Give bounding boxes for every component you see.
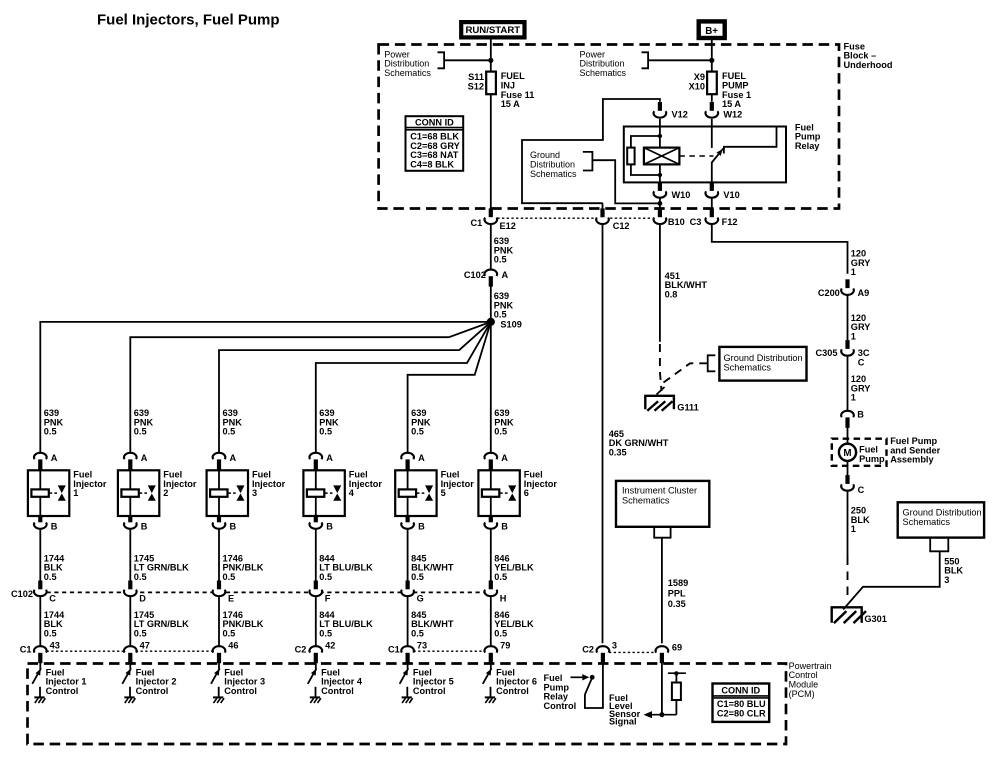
label 250 BLK 1 [851, 506, 870, 535]
label 639 PNK 0.5 injector 5 feed [411, 408, 431, 437]
svg-text:Distribution: Distribution [530, 159, 575, 169]
wire B+ down to Fuse 1 [711, 37, 713, 72]
fuel injector 5 driver in PCM [400, 662, 454, 704]
relay switch fixed contact [724, 127, 777, 153]
svg-text:C102: C102 [464, 270, 486, 280]
svg-text:C102: C102 [11, 589, 33, 599]
svg-text:Relay: Relay [795, 141, 820, 151]
fuel injector 1 driver in PCM [32, 662, 86, 704]
wire E12 to C102 [490, 225, 492, 270]
label 639 PNK 0.5 injector 1 feed [44, 408, 64, 437]
svg-text:S12: S12 [468, 82, 484, 92]
wire injector 1 to C102 [39, 530, 41, 582]
wire C102 G to PCM pin 73 [407, 597, 409, 647]
svg-text:A9: A9 [858, 288, 870, 298]
svg-text:Control: Control [321, 686, 354, 696]
relay coil resistor loop [627, 134, 662, 177]
connector PCM pin 73 [388, 641, 427, 664]
svg-text:0.5: 0.5 [223, 427, 236, 437]
connector B injector 2 [124, 516, 148, 532]
svg-text:Fuel Injectors, Fuel Pump: Fuel Injectors, Fuel Pump [97, 11, 280, 28]
svg-text:0.5: 0.5 [44, 628, 57, 638]
svg-text:0.5: 0.5 [319, 572, 332, 582]
wire C305 to B [847, 357, 849, 412]
svg-text:C: C [858, 485, 865, 495]
svg-text:Schematics: Schematics [530, 169, 577, 179]
wire fanout S109 to injector 4 [316, 322, 491, 453]
svg-text:C12: C12 [613, 221, 630, 231]
wire C12 down to pin 3 [602, 225, 604, 644]
svg-text:M: M [843, 448, 851, 459]
connector C fuel pump [841, 475, 864, 495]
relay coil [644, 148, 680, 165]
fuel pump motor M [839, 444, 885, 464]
svg-text:Control: Control [544, 701, 577, 711]
connector W12 [706, 102, 743, 120]
fuel injector 2 [118, 470, 197, 516]
wire B10 down [659, 225, 661, 342]
wire W10 to B10 [659, 199, 661, 210]
svg-text:Control: Control [496, 686, 529, 696]
title [97, 11, 280, 28]
svg-text:C: C [858, 358, 865, 368]
connector A injector 1 [34, 453, 58, 470]
node X9 X10 junction [709, 58, 714, 63]
wire fanout S109 to injector 2 [130, 322, 491, 453]
svg-text:B: B [501, 522, 508, 532]
dashed wire to G111 [657, 344, 708, 395]
svg-text:Signal: Signal [609, 717, 637, 727]
connector C102 pin A inline [464, 270, 509, 287]
label 639 PNK 0.5 injector 3 feed [223, 408, 243, 437]
svg-text:1: 1 [73, 488, 78, 498]
RUN/START ignition feed box [461, 22, 524, 37]
svg-text:CONN ID: CONN ID [415, 117, 454, 127]
svg-text:15 A: 15 A [722, 99, 741, 109]
svg-text:G301: G301 [864, 614, 886, 624]
label 639 PNK 0.5 injector 4 feed [319, 408, 339, 437]
svg-text:Schematics: Schematics [724, 363, 772, 373]
svg-text:C2=80 CLR: C2=80 CLR [717, 708, 766, 718]
svg-text:C2: C2 [582, 645, 594, 655]
svg-text:C4=8 BLK: C4=8 BLK [410, 159, 454, 169]
relay switch blade [712, 149, 723, 184]
label 846 wire upper [494, 553, 534, 582]
relay coil-switch dashed link [679, 155, 713, 157]
wire Fuse 11 to E12 [490, 94, 492, 209]
wire C102 to S109 [490, 285, 492, 322]
wire fanout S109 to injector 3 [219, 322, 491, 453]
svg-text:1: 1 [851, 332, 856, 342]
svg-text:CONN ID: CONN ID [721, 686, 760, 696]
svg-text:B: B [230, 522, 237, 532]
label 844 wire upper [319, 553, 373, 582]
wire fanout S109 to injector 1 [40, 322, 491, 453]
svg-text:69: 69 [672, 643, 682, 653]
svg-text:A: A [418, 453, 425, 463]
wire 550 BLK 3 to G301 [843, 551, 963, 609]
label 639 PNK 0.5 injector 6 feed [494, 408, 514, 437]
svg-text:1: 1 [851, 267, 856, 277]
svg-text:0.5: 0.5 [494, 310, 507, 320]
connector C102 pin F [310, 581, 331, 604]
connector PCM pin 47 [124, 641, 150, 664]
dashed wire to G301 [847, 557, 849, 602]
svg-text:46: 46 [228, 641, 238, 651]
svg-text:3: 3 [612, 641, 617, 651]
svg-text:G: G [417, 594, 424, 604]
wire injector 6 to C102 [490, 530, 492, 582]
instrument cluster schematics box [616, 481, 709, 538]
ground G111 [645, 396, 698, 413]
label 639 PNK 0.5 [494, 236, 514, 265]
svg-text:F12: F12 [722, 217, 738, 227]
wire V12 into relay [659, 119, 661, 149]
svg-text:5: 5 [441, 488, 446, 498]
svg-text:A: A [141, 453, 148, 463]
connector C12 [596, 208, 629, 231]
wire C102 C to PCM pin 43 [39, 597, 41, 647]
svg-text:4: 4 [349, 488, 355, 498]
connector C2 pin 3 [582, 641, 617, 664]
fuel pump relay control driver in PCM [544, 662, 603, 711]
wire V10 to F12 [711, 199, 713, 210]
node S11 S12 junction [488, 58, 493, 63]
svg-text:V12: V12 [672, 110, 688, 120]
svg-text:C1: C1 [470, 218, 482, 228]
svg-text:0.5: 0.5 [134, 427, 147, 437]
svg-text:PPL: PPL [668, 588, 686, 598]
power distribution reference left [384, 49, 491, 78]
svg-text:Underhood: Underhood [844, 60, 893, 70]
svg-text:G111: G111 [677, 403, 698, 413]
label 1746 wire lower [223, 610, 264, 638]
svg-text:Schematics: Schematics [903, 517, 951, 527]
svg-text:1589: 1589 [668, 578, 688, 588]
connector C102 pin H [484, 581, 506, 604]
label 1745 wire upper [134, 553, 189, 582]
ground distribution schematics box right [708, 347, 807, 381]
connector pin 69 [656, 643, 683, 664]
svg-text:A: A [326, 453, 333, 463]
wire W12 into relay switch contact [711, 119, 713, 148]
svg-text:Schematics: Schematics [580, 68, 627, 78]
svg-text:C: C [49, 594, 56, 604]
svg-text:A: A [502, 270, 509, 280]
wire injector 3 to C102 [218, 530, 220, 582]
svg-text:47: 47 [140, 641, 150, 651]
wire C102 D to PCM pin 47 [129, 597, 131, 647]
svg-text:0.5: 0.5 [411, 572, 424, 582]
svg-text:RUN/START: RUN/START [465, 25, 520, 36]
svg-text:Control: Control [413, 686, 446, 696]
connector C200 A9 [818, 279, 869, 298]
ground distribution schematics box bottom right [898, 502, 984, 551]
svg-text:C1: C1 [388, 645, 400, 655]
wire RUN/START down to Fuse 11 [490, 40, 492, 72]
label 639 PNK 0.5 second [494, 291, 514, 320]
svg-text:0.8: 0.8 [665, 289, 678, 299]
svg-text:Schematics: Schematics [622, 495, 670, 505]
svg-text:B: B [418, 522, 425, 532]
wire Fuse 1 to W12 [711, 94, 713, 102]
wire coil to W10 [659, 164, 661, 183]
svg-text:B+: B+ [705, 26, 718, 37]
connector B fuel pump [841, 410, 864, 428]
svg-text:6: 6 [524, 488, 529, 498]
svg-text:0.5: 0.5 [494, 427, 507, 437]
ground reference link to B10 wire [592, 160, 662, 206]
svg-text:X10: X10 [689, 82, 705, 92]
fuel injector 4 driver in PCM [308, 662, 363, 704]
powertrain control module dashed box [28, 661, 832, 744]
svg-text:43: 43 [50, 641, 60, 651]
fuel injector 6 [478, 470, 557, 516]
connector C102 pin C [34, 581, 56, 604]
svg-text:Control: Control [136, 686, 169, 696]
connector C102 pin E [213, 581, 234, 604]
svg-text:E12: E12 [500, 221, 516, 231]
fuel injector 4 [303, 470, 382, 516]
svg-text:B: B [326, 522, 333, 532]
connector A injector 2 [124, 453, 148, 470]
ground distribution schematics reference text [530, 150, 592, 179]
svg-text:D: D [139, 594, 146, 604]
fuel injector 3 driver in PCM [211, 662, 265, 704]
svg-text:3: 3 [944, 575, 949, 585]
connector B injector 5 [401, 516, 425, 532]
svg-text:B: B [857, 410, 864, 420]
label 120 GRY 1 third [851, 374, 871, 403]
svg-text:15 A: 15 A [501, 99, 520, 109]
svg-text:Control: Control [46, 686, 79, 696]
svg-text:C1: C1 [20, 645, 32, 655]
connector W10 [654, 182, 691, 200]
fuel level sensor signal input in PCM [609, 662, 686, 727]
svg-text:73: 73 [417, 641, 427, 651]
fuel injector 3 [207, 470, 286, 516]
label 1744 wire lower [44, 610, 65, 638]
wire pump to C [847, 461, 849, 476]
label 1745 wire lower [134, 610, 189, 638]
svg-text:H: H [500, 594, 507, 604]
wire injector 4 to C102 [315, 530, 317, 582]
svg-text:0.5: 0.5 [319, 628, 332, 638]
connector B10 [654, 208, 685, 227]
fuel pump relay box [624, 122, 821, 182]
svg-text:0.5: 0.5 [223, 628, 236, 638]
label 120 GRY 1 [851, 249, 871, 278]
connector PCM pin 46 [213, 641, 239, 664]
connector V10 [706, 182, 740, 200]
fuel injector 2 driver in PCM [122, 662, 176, 704]
connector C3 F12 [690, 208, 738, 227]
svg-text:B: B [51, 522, 58, 532]
connector B injector 3 [213, 516, 237, 532]
wire F12 elbow to right column [712, 225, 848, 274]
connector C102 pin G [401, 581, 423, 604]
connector row C1 dotted link [497, 217, 652, 219]
splice S109 [487, 318, 522, 330]
B+ battery feed box [699, 21, 725, 38]
svg-text:A: A [230, 453, 237, 463]
wire C200 to C305 [847, 296, 849, 341]
svg-text:Instrument Cluster: Instrument Cluster [622, 485, 697, 495]
label 1744 wire upper [44, 553, 65, 582]
svg-text:B10: B10 [668, 217, 685, 227]
connector PCM pin 43 [20, 641, 60, 664]
svg-text:C3: C3 [690, 217, 702, 227]
connector PCM pin 42 [295, 641, 336, 664]
wire C102 F to PCM pin 42 [315, 597, 317, 647]
connector A injector 5 [401, 453, 425, 470]
connector C102 row label [11, 589, 33, 599]
label 120 GRY 1 second [851, 313, 871, 342]
svg-text:0.5: 0.5 [494, 255, 507, 265]
label 639 PNK 0.5 injector 2 feed [134, 408, 154, 437]
svg-text:0.5: 0.5 [494, 628, 507, 638]
fuse block label [844, 41, 893, 70]
connector A injector 6 [485, 453, 509, 470]
connector V12 [654, 102, 688, 120]
label 1589 PPL 0.35 [668, 578, 688, 609]
label 846 wire lower [494, 610, 534, 638]
ground distribution reference path from V12 [522, 99, 660, 203]
svg-text:S109: S109 [500, 320, 521, 330]
svg-text:1: 1 [851, 393, 856, 403]
fuse block underhood dashed box [379, 45, 839, 209]
ground G301 [832, 607, 887, 624]
power distribution reference right [580, 49, 712, 78]
svg-text:F: F [325, 594, 331, 604]
wire instrument cluster to pin 69 [661, 538, 663, 644]
svg-text:C305: C305 [816, 348, 838, 358]
svg-text:C200: C200 [818, 288, 840, 298]
connector A injector 3 [213, 453, 237, 470]
connector C1 E12 [470, 208, 515, 231]
svg-text:0.5: 0.5 [319, 427, 332, 437]
label 451 BLK/WHT 0.8 [665, 271, 708, 300]
wire C12 stub from ground path [602, 203, 604, 209]
wire C102 E to PCM pin 46 [218, 597, 220, 647]
svg-text:42: 42 [325, 641, 335, 651]
svg-text:0.5: 0.5 [411, 427, 424, 437]
wire injector 2 to C102 [129, 530, 131, 582]
connector B injector 1 [34, 516, 58, 532]
fuel injector 6 driver in PCM [483, 662, 537, 704]
svg-text:2: 2 [163, 488, 168, 498]
connector B injector 6 [485, 516, 509, 532]
fuel injector 5 [395, 470, 474, 516]
PCM row dotted links [47, 651, 656, 652]
fuse FUEL INJ Fuse 11 15A [468, 71, 535, 109]
fuse FUEL PUMP Fuse 1 15A [689, 71, 751, 109]
svg-text:V10: V10 [723, 190, 739, 200]
svg-text:B: B [141, 522, 148, 532]
label 844 wire lower [319, 610, 373, 638]
svg-text:0.35: 0.35 [668, 599, 686, 609]
svg-text:Schematics: Schematics [384, 68, 431, 78]
connector A injector 4 [310, 453, 334, 470]
label 465 DK GRN/WHT 0.35 [609, 429, 669, 458]
label 845 wire lower [411, 610, 454, 638]
svg-text:0.35: 0.35 [609, 448, 627, 458]
svg-text:Ground Distribution: Ground Distribution [903, 508, 982, 518]
svg-text:Control: Control [224, 686, 257, 696]
svg-text:0.5: 0.5 [134, 628, 147, 638]
label 845 wire upper [411, 553, 454, 582]
svg-text:0.5: 0.5 [411, 628, 424, 638]
svg-text:0.5: 0.5 [134, 572, 147, 582]
wire B into pump assembly [847, 427, 849, 444]
wire C down [847, 492, 849, 557]
connector C102 pin D [124, 581, 146, 604]
fuel pump and sender assembly dashed box [832, 436, 941, 466]
connector C305 3C [816, 340, 870, 367]
connector PCM pin 79 [484, 641, 510, 664]
wire injector 5 to C102 [407, 530, 409, 582]
svg-text:Pump: Pump [859, 454, 885, 464]
svg-text:1: 1 [851, 524, 856, 534]
svg-text:Ground Distribution: Ground Distribution [724, 353, 803, 363]
svg-text:A: A [501, 453, 508, 463]
svg-text:(PCM): (PCM) [789, 689, 815, 699]
fuel injector 1 [28, 470, 107, 516]
CONN ID table PCM [713, 684, 770, 722]
svg-text:W10: W10 [672, 190, 691, 200]
label 1746 wire upper [223, 553, 264, 582]
svg-text:0.5: 0.5 [223, 572, 236, 582]
svg-text:3: 3 [252, 488, 257, 498]
svg-text:A: A [51, 453, 58, 463]
wire C102 H to PCM pin 79 [490, 597, 492, 647]
connector B injector 4 [310, 516, 334, 532]
svg-text:C2: C2 [295, 645, 307, 655]
svg-text:79: 79 [500, 641, 510, 651]
svg-text:0.5: 0.5 [44, 427, 57, 437]
CONN ID table fuse block [406, 116, 464, 171]
svg-text:Ground: Ground [530, 150, 560, 160]
svg-text:0.5: 0.5 [494, 572, 507, 582]
wire fanout S109 to injector 5 [408, 322, 491, 453]
wire S109 down to injector 6 [490, 326, 492, 453]
svg-text:Assembly: Assembly [890, 455, 934, 465]
svg-text:E: E [228, 594, 234, 604]
C102 harness row dashed line [47, 591, 485, 593]
svg-text:0.5: 0.5 [44, 572, 57, 582]
svg-text:W12: W12 [723, 110, 742, 120]
